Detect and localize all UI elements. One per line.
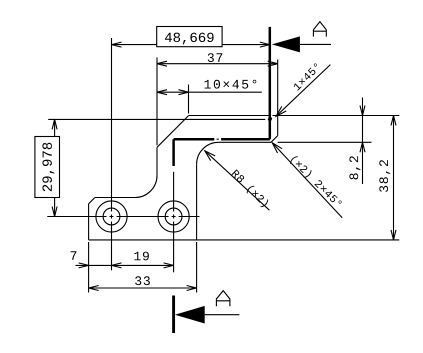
dim 29,978 dimension line (35, 119, 60, 216)
wire fillet R8 lower-right (197, 142, 219, 164)
leader 2x45 line and arrow (272, 143, 342, 218)
dim 38,2 text (379, 160, 390, 192)
wire cutting plane vertical mid segment (172, 139, 175, 166)
wire base left edge (88, 204, 90, 240)
leader 2x45 text (289, 155, 343, 209)
label section letter A bottom (216, 291, 230, 307)
hole right outer circle (158, 201, 189, 232)
dim 48,669 text (165, 33, 214, 45)
node center mark gaps holes (107, 212, 179, 222)
dim 33 text (135, 276, 150, 285)
dim 33 dimension line and extensions (89, 242, 197, 293)
hole left outer circle (96, 201, 127, 232)
dim 7 text (71, 251, 77, 260)
leader R8 text (230, 169, 270, 209)
wire 10x45 chamfer edge (157, 116, 189, 148)
leader R8 line and arrow (205, 151, 270, 210)
hole right inner circle (165, 208, 182, 225)
leader 1x45 line and arrow (276, 65, 330, 117)
wire cutting plane jog segment right (221, 138, 270, 141)
wire base bottom edge and extension (89, 239, 400, 241)
wire top surface extension line (8,2 / 38,2) (273, 115, 400, 117)
dim 37 text (208, 53, 223, 62)
dim 10x45 dimension line and extension (157, 85, 262, 114)
section arrow bottom (view direction) (175, 306, 205, 324)
wire fillet R8 upper-left (135, 176, 157, 198)
wire 1x45 chamfer edge (269, 116, 272, 119)
dim 10x45 text (205, 80, 257, 89)
wire cutting plane jog segment left (174, 138, 215, 141)
dim 19 text (134, 252, 149, 261)
wire riser left edge (156, 147, 158, 175)
node right hole centerline lower segment (173, 172, 175, 272)
wire base left chamfer (89, 198, 95, 204)
hole left inner circle (103, 208, 120, 225)
dim 7 and 19 dimension line (76, 263, 174, 268)
label section letter A top (313, 22, 326, 37)
wire base top surface (95, 197, 135, 199)
wire chamfer lower edge line across part (48, 118, 265, 120)
dim 37 dimension line and extensions (157, 58, 278, 146)
node left hole centerline vertical / 48,669 extension (111, 38, 113, 270)
wire cutting plane vertical lower segment (172, 296, 175, 334)
dim 38,2 dimension line (391, 116, 396, 240)
dim 48,669 dimension line (112, 27, 270, 48)
section arrow top (view direction) (272, 36, 300, 52)
dim 29,978 text (42, 143, 54, 192)
dim 8,2 dimension line (360, 98, 365, 185)
wire cutting plane vertical upper segment (269, 27, 272, 139)
dim 8,2 text (349, 156, 360, 179)
node chamfer marker diamond on cutting line (268, 116, 272, 122)
leader 1x45 text (293, 63, 321, 91)
wire flange top surface (189, 115, 269, 117)
wire ledge extension line for 8,2 (278, 141, 372, 143)
wire flange underside (219, 141, 271, 143)
wire base right edge (196, 164, 198, 240)
node holes horizontal centerline / 29,978 extension (47, 216, 199, 218)
wire chain dot in jog gap (217, 138, 219, 140)
wire 2x45 chamfer edge (271, 136, 278, 143)
wire notch vertical edge + 37 extension (277, 60, 279, 136)
